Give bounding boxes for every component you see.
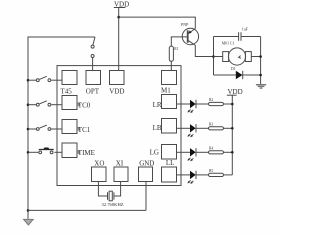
wire bottom rail: [28, 209, 146, 211]
node rail TC1: [27, 128, 30, 131]
svg-text:XI: XI: [116, 160, 124, 168]
svg-text:OPT: OPT: [86, 87, 100, 95]
wire diode to ground: [243, 74, 261, 76]
svg-text:D1: D1: [231, 67, 236, 71]
node rail LED1: [231, 103, 234, 106]
pin box GND: [139, 160, 155, 182]
pin box XI: [114, 160, 128, 182]
node VDD junction: [117, 16, 120, 19]
svg-text:VDD: VDD: [109, 87, 124, 95]
svg-text:32.768KHZ: 32.768KHZ: [102, 202, 124, 207]
svg-text:LR: LR: [153, 101, 162, 109]
switch S1 to OPT: [91, 37, 95, 70]
svg-text:R4: R4: [209, 146, 213, 150]
wire LG to LED3: [177, 151, 191, 153]
motor loop right wire: [260, 37, 262, 85]
diode D1: [231, 67, 243, 79]
wire LL to LED4: [177, 174, 191, 176]
svg-text:VDD: VDD: [228, 88, 243, 96]
svg-text:PNP: PNP: [181, 22, 189, 27]
wire VDD right rail: [231, 95, 233, 175]
node ground junction: [259, 74, 262, 77]
switch S4 to TC1: [36, 125, 62, 130]
resistor R1 (base): [169, 46, 178, 61]
svg-text:R2: R2: [209, 98, 213, 102]
svg-text:TC0: TC0: [78, 102, 91, 110]
transistor Q1 PNP: [181, 22, 199, 45]
wire resistor to M1 pin: [170, 61, 172, 70]
wire LB to LED2: [177, 127, 191, 129]
svg-text:R5: R5: [209, 169, 213, 173]
wire R5 to rail: [224, 174, 233, 176]
wire R3 to rail: [224, 127, 233, 129]
wire base to resistor: [171, 37, 187, 46]
node rail LED2: [231, 127, 234, 130]
pin box VDD: [109, 71, 124, 96]
wire LED1 to R2: [196, 103, 209, 105]
pin box LL: [162, 159, 177, 182]
svg-text:LL: LL: [166, 159, 175, 167]
pin box TC1: [62, 120, 91, 134]
wire LR to LED1: [177, 103, 191, 105]
wire collector to motor: [195, 45, 222, 56]
svg-text:M01 C1: M01 C1: [222, 42, 235, 46]
wire crystal to XI: [114, 182, 121, 197]
wire LED4 to R5: [196, 174, 209, 176]
wire loop bottom left: [214, 74, 236, 76]
switch S2 to T45: [36, 76, 62, 81]
wire loop top right: [241, 36, 261, 38]
wire loop top left: [214, 36, 239, 38]
pin box TC0: [62, 96, 91, 110]
node rail T45: [27, 79, 30, 82]
node collector junction: [212, 55, 215, 58]
wire R4 to rail: [224, 151, 233, 153]
IC U1 outline: [57, 66, 181, 186]
svg-text:TC1: TC1: [78, 126, 91, 134]
motor M01: [214, 42, 261, 66]
node motor right junction: [259, 55, 262, 58]
LED LED1: [188, 100, 197, 113]
capacitor C1: [239, 27, 248, 40]
pin box LG: [150, 145, 177, 160]
svg-text:LG: LG: [150, 148, 159, 156]
node rail LED3: [231, 151, 234, 154]
wire VDD vertical to chip VDD pin: [118, 8, 120, 71]
wire rail to switch S2: [28, 79, 36, 81]
resistor R4: [209, 146, 224, 154]
resistor R5: [209, 169, 224, 177]
wire VDD to transistor emitter: [119, 17, 196, 29]
LED LED2: [188, 124, 197, 137]
ground symbol (arrow): [24, 219, 34, 225]
pin box T45: [61, 71, 78, 96]
switch S3 to TC0: [36, 101, 62, 106]
ground symbol (earth): [256, 85, 266, 88]
wire XO to crystal: [98, 182, 107, 197]
node rail bottom: [27, 209, 30, 212]
wire rail to switch S4: [28, 128, 36, 130]
svg-text:M1: M1: [161, 87, 171, 95]
pin box OPT: [86, 71, 101, 96]
wire LED3 to R4: [196, 151, 209, 153]
resistor R3: [209, 122, 224, 130]
wire LED2 to R3: [196, 127, 209, 129]
pin box TIME: [62, 143, 95, 158]
svg-text:GND: GND: [139, 160, 154, 168]
svg-text:R3: R3: [209, 122, 213, 126]
resistor R2: [209, 98, 224, 106]
power net VDD (top): [114, 0, 129, 8]
wire R2 to rail: [224, 103, 233, 105]
wire left rail: [28, 37, 95, 219]
LED LED4: [188, 171, 197, 184]
wire GND pin down: [145, 182, 147, 211]
svg-text:XO: XO: [94, 160, 104, 168]
pin box M1: [161, 71, 177, 95]
wire rail to switch S3: [28, 104, 36, 106]
svg-text:1uF: 1uF: [242, 27, 248, 31]
svg-text:R1: R1: [174, 47, 178, 51]
pin box XO: [92, 160, 107, 182]
svg-text:TIME: TIME: [78, 149, 95, 157]
wire rail to switch S5: [28, 151, 38, 153]
motor loop left wire: [213, 37, 215, 76]
crystal Y1 32.768KHZ: [102, 191, 124, 207]
power net VDD (right): [227, 88, 243, 96]
LED LED3: [188, 148, 197, 161]
node rail TC0: [27, 103, 30, 106]
svg-text:LB: LB: [153, 124, 162, 132]
node rail TIME: [27, 151, 30, 154]
pin box LB: [153, 119, 177, 134]
svg-text:T45: T45: [61, 87, 73, 95]
pushbutton S5 to TIME: [39, 148, 62, 154]
pin box LR: [153, 95, 177, 110]
